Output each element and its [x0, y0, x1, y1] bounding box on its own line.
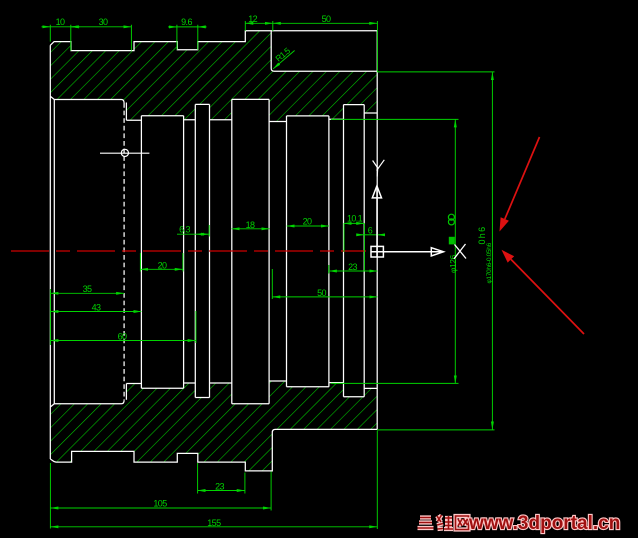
svg-text:10: 10 — [56, 17, 65, 27]
svg-text:43: 43 — [92, 303, 101, 313]
svg-text:155: 155 — [207, 518, 221, 528]
svg-text:23: 23 — [348, 262, 357, 272]
svg-text:10.1: 10.1 — [347, 214, 363, 224]
svg-text:23: 23 — [215, 482, 224, 492]
svg-text:30: 30 — [99, 17, 108, 27]
svg-text:50: 50 — [317, 288, 326, 298]
svg-text:20: 20 — [303, 217, 312, 227]
svg-text:φ170h6-0.05h6: φ170h6-0.05h6 — [486, 242, 493, 283]
svg-text:9.6: 9.6 — [181, 17, 192, 27]
svg-text:6.3: 6.3 — [179, 225, 190, 235]
svg-text:0h6: 0h6 — [477, 226, 487, 245]
svg-text:φ126: φ126 — [448, 255, 458, 273]
svg-text:50: 50 — [322, 14, 331, 24]
svg-text:20: 20 — [158, 260, 167, 270]
svg-text:6: 6 — [368, 226, 373, 236]
svg-text:35: 35 — [83, 284, 92, 294]
svg-text:12: 12 — [248, 14, 257, 24]
svg-text:18: 18 — [246, 220, 255, 230]
svg-text:60: 60 — [118, 332, 127, 342]
svg-text:www.3dportal.cn: www.3dportal.cn — [468, 513, 620, 534]
svg-text:105: 105 — [153, 499, 167, 509]
